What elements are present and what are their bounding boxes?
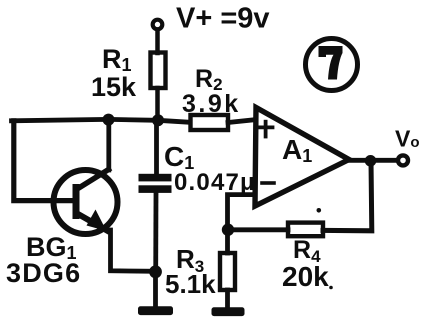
svg-text:V+ =9v: V+ =9v	[176, 3, 270, 35]
svg-text:0.047μ: 0.047μ	[174, 169, 256, 196]
svg-text:3DG6: 3DG6	[6, 258, 81, 288]
svg-text:5.1k: 5.1k	[165, 269, 216, 299]
svg-text:15k: 15k	[91, 72, 137, 102]
svg-text:20k: 20k	[282, 261, 329, 292]
svg-text:3.9k: 3.9k	[182, 90, 241, 118]
